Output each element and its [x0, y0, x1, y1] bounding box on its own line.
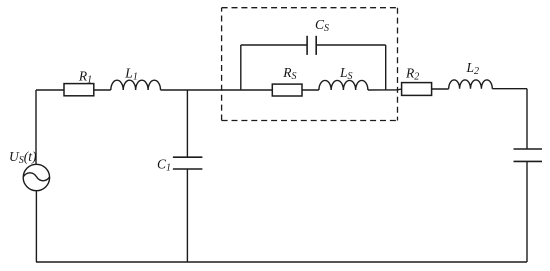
wire left vertical (bottom): [35, 191, 37, 262]
dashed box around sensor RS LS CS : left edge: [221, 8, 223, 121]
svg-text:US(t): US(t): [9, 149, 37, 166]
wire CS branch right horizontal: [316, 44, 386, 46]
wire C1 branch upper: [186, 90, 188, 157]
dashed box right edge: [397, 8, 399, 121]
dashed box top edge: [222, 7, 398, 9]
wire top-left horizontal: [36, 89, 64, 91]
wire L1 to RS (through node at C1 branch): [161, 89, 273, 91]
wire R1 to L1: [94, 89, 111, 91]
wire CS branch left vertical: [240, 45, 242, 90]
capacitor CS left plate: [306, 36, 308, 55]
wire RS to LS: [302, 89, 319, 91]
capacitor C1 bottom plate: [173, 168, 203, 170]
wire right vertical lower: [526, 161, 528, 262]
inductor LS: [319, 80, 368, 90]
AC source sine wave: [23, 173, 49, 181]
wire C1 branch lower: [186, 169, 188, 262]
wire left vertical (top): [35, 90, 37, 164]
resistor R2: [402, 83, 432, 96]
wire CS branch left horizontal: [241, 44, 307, 46]
wire R2 to L2: [432, 88, 449, 90]
resistor R1: [64, 84, 94, 96]
wire LS to R2: [368, 89, 402, 90]
wire CS branch right vertical: [385, 45, 387, 90]
wire right vertical upper: [526, 89, 528, 149]
resistor RS: [272, 84, 302, 96]
dashed box bottom edge: [222, 120, 398, 122]
AC source US(t) circle: [23, 164, 49, 190]
inductor L2: [449, 80, 493, 89]
inductor L1: [111, 80, 161, 90]
capacitor C1 top plate: [173, 156, 203, 158]
capacitor C2 bottom plate: [514, 160, 543, 162]
capacitor CS right plate: [315, 36, 317, 55]
wire bottom horizontal: [36, 261, 527, 263]
capacitor C2 top plate: [514, 148, 543, 150]
wire L2 to right corner: [492, 88, 527, 90]
